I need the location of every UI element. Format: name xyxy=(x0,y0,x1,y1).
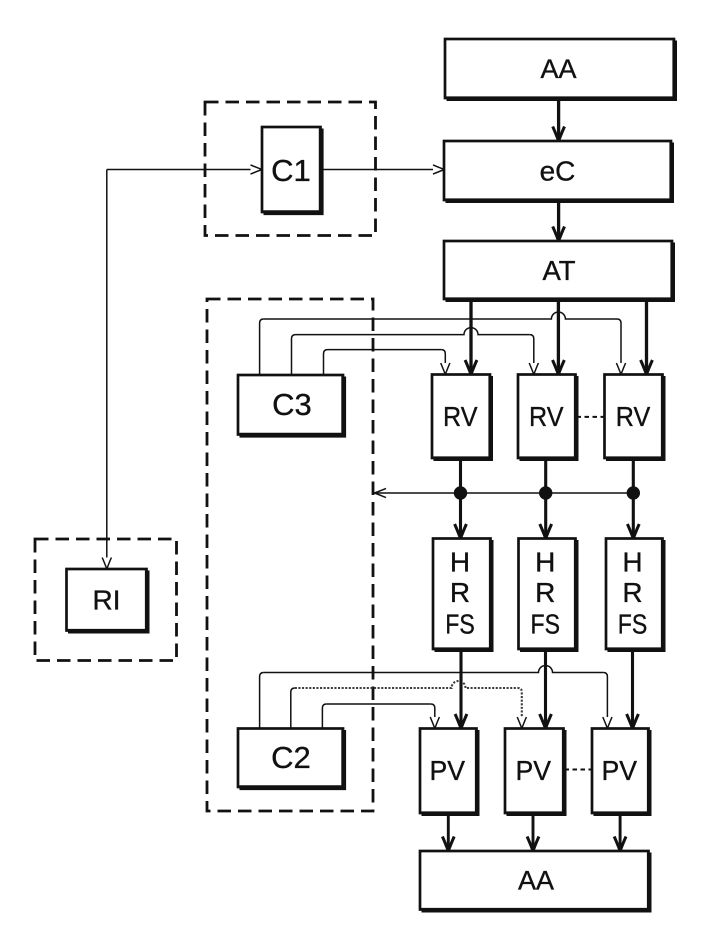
svg-text:FS: FS xyxy=(618,609,648,640)
svg-text:H: H xyxy=(622,547,642,578)
svg-text:H: H xyxy=(535,547,555,578)
svg-text:RI: RI xyxy=(93,585,121,616)
svg-text:FS: FS xyxy=(445,609,475,640)
svg-text:C2: C2 xyxy=(271,740,311,775)
svg-text:R: R xyxy=(622,577,642,608)
svg-text:R: R xyxy=(450,577,470,608)
svg-text:RV: RV xyxy=(616,401,651,432)
svg-text:eC: eC xyxy=(540,156,576,187)
svg-text:AA: AA xyxy=(540,54,576,84)
svg-text:FS: FS xyxy=(531,609,561,640)
svg-text:C1: C1 xyxy=(271,153,311,188)
svg-text:RV: RV xyxy=(443,401,478,432)
svg-text:PV: PV xyxy=(516,755,552,786)
svg-text:PV: PV xyxy=(602,755,638,786)
svg-text:AT: AT xyxy=(542,255,575,286)
svg-text:PV: PV xyxy=(430,755,466,786)
svg-text:C3: C3 xyxy=(272,387,312,422)
svg-text:R: R xyxy=(535,577,555,608)
svg-text:H: H xyxy=(450,547,470,578)
svg-text:AA: AA xyxy=(518,866,554,896)
svg-text:RV: RV xyxy=(529,401,564,432)
